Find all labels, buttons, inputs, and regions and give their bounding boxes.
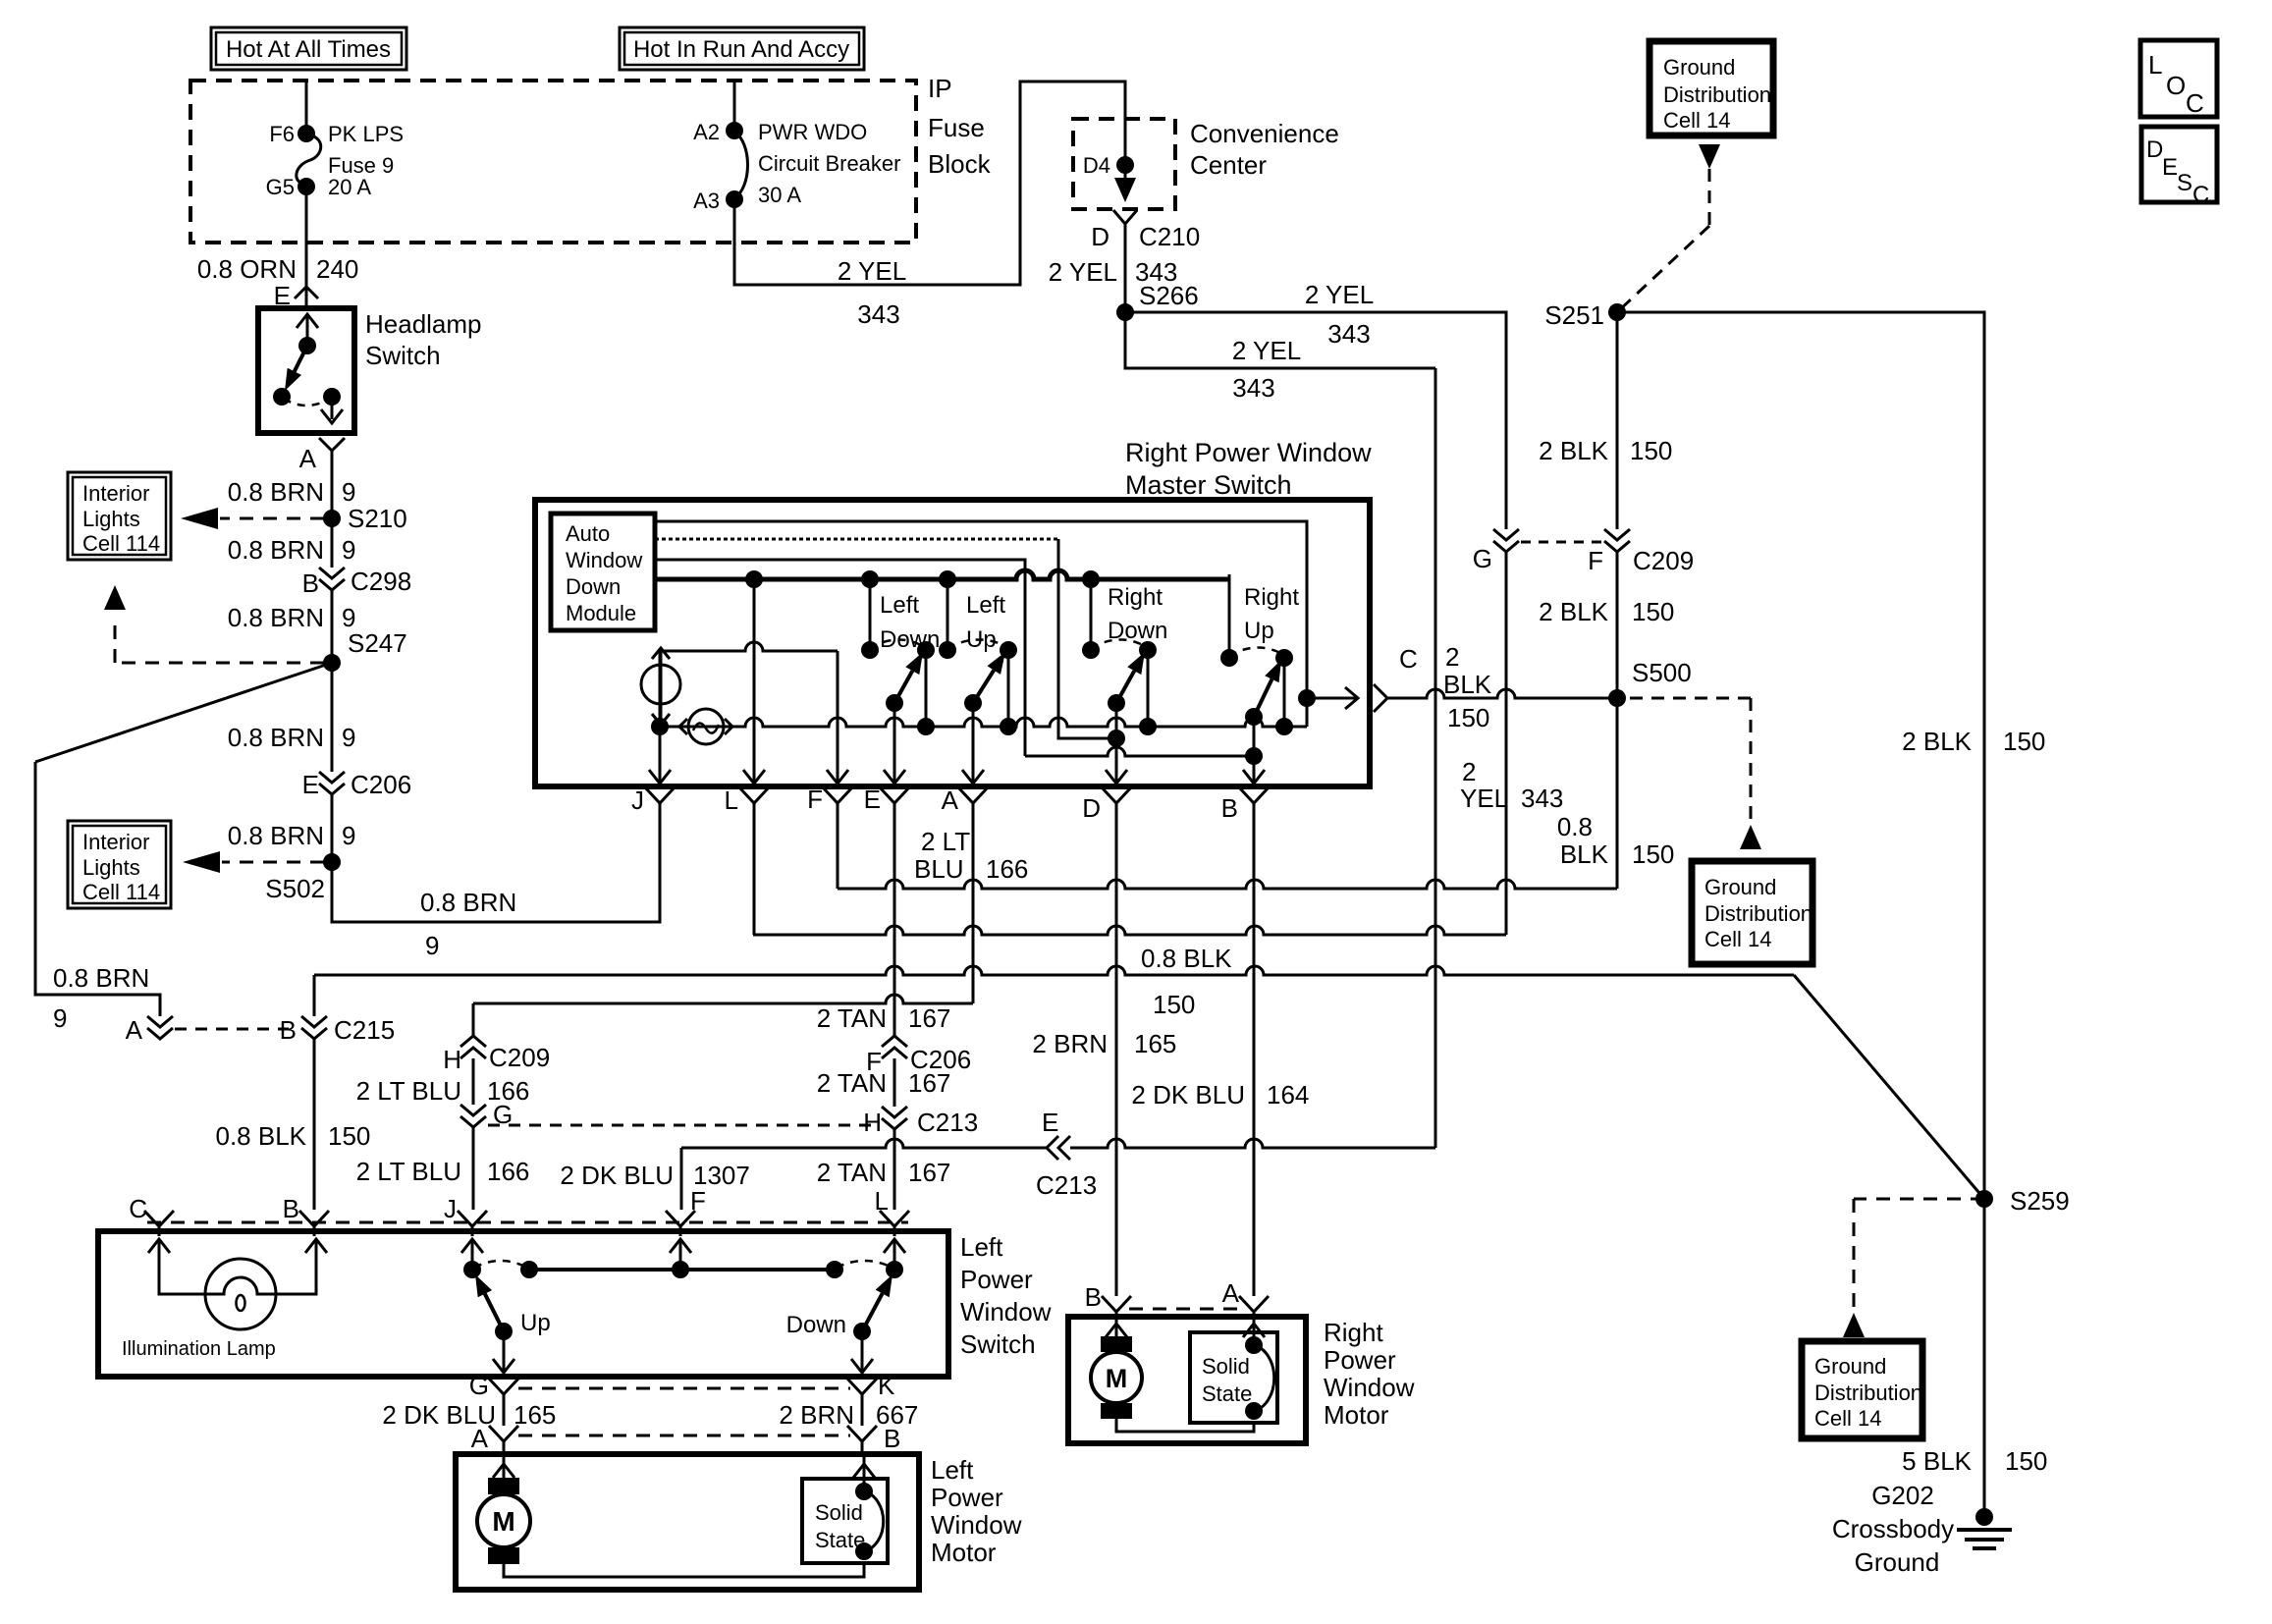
svg-text:5 BLK: 5 BLK [1902,1446,1972,1476]
svg-text:Distribution: Distribution [1814,1380,1922,1405]
DESC legend box [2141,127,2217,208]
splice S266 [1116,281,1199,321]
Auto Window Down Module box [551,514,655,630]
svg-text:343: 343 [1521,784,1563,813]
left switch up contact pair [474,1261,538,1278]
svg-text:150: 150 [1447,703,1489,732]
svg-text:C: C [1399,644,1418,674]
splice D4 in convenience center [1083,153,1134,178]
left motor symbol [477,1478,530,1564]
svg-text:Cell 14: Cell 14 [1814,1406,1881,1431]
svg-text:A: A [1222,1278,1240,1308]
svg-text:9: 9 [342,723,355,752]
svg-text:0.8 BRN: 0.8 BRN [228,477,324,507]
arrow inside convenience center [1114,165,1136,202]
headlamp switch internal contacts and wiper [273,314,343,423]
connector C213 pin H [863,1107,978,1137]
E pin arrow [884,770,905,784]
Left Power Window Motor label [931,1455,1022,1567]
svg-text:167: 167 [908,1003,950,1033]
svg-text:2 DK BLU: 2 DK BLU [1131,1080,1245,1110]
svg-text:Switch: Switch [365,341,441,370]
svg-text:A3: A3 [693,189,720,213]
wire S259 to G202 ground (5 BLK 150) [1902,1199,2047,1517]
right motor connector dashed line [1129,1308,1241,1311]
svg-text:C213: C213 [1036,1170,1097,1200]
breaker label PWR WDO Circuit Breaker 30 A [758,120,900,207]
left down switch [861,579,935,785]
svg-text:Solid: Solid [815,1500,863,1525]
svg-text:E: E [2162,154,2178,181]
left motor pin A [471,1424,518,1453]
Interior Lights Cell 114 box (upper) [68,472,171,560]
Headlamp Switch label [365,309,482,370]
svg-text:Motor: Motor [1324,1400,1389,1430]
left up switch [939,579,1017,785]
master switch pin A [942,785,988,815]
svg-text:C213: C213 [917,1108,978,1137]
svg-text:Ground: Ground [1704,875,1776,899]
svg-text:D: D [1091,222,1109,251]
wire C215 up/right to S259 (0.8 BLK 150) [314,944,1984,1199]
wire master pin L down and right to C209 G wire [753,807,1506,935]
B pin arrow [1243,770,1265,784]
splice S259 [1975,1186,2070,1216]
C output wire and arrow inside master switch [1307,687,1358,709]
svg-text:9: 9 [425,931,439,960]
svg-text:B: B [283,1194,299,1223]
fuse PK LPS Fuse 9 20 A symbol [297,125,321,195]
svg-text:K: K [878,1371,895,1400]
svg-text:BLU: BLU [914,854,964,884]
svg-text:0.8 BRN: 0.8 BRN [420,888,516,917]
left switch pin J [444,1194,487,1236]
svg-text:C215: C215 [334,1015,395,1045]
svg-text:Right: Right [1244,584,1299,611]
svg-text:2 TAN: 2 TAN [817,1068,887,1098]
wire S210 to C298 (0.8 BRN 9) [228,518,356,568]
svg-text:Interior: Interior [82,830,149,854]
svg-text:Distribution: Distribution [1663,82,1771,107]
dashed lead S259 to ground distribution cell 14 (bottom) [1854,1199,1984,1311]
svg-text:343: 343 [1327,319,1370,349]
right motor pin B arrow [1106,1317,1127,1341]
svg-text:2 BLK: 2 BLK [1539,436,1608,465]
svg-text:F: F [807,785,823,814]
svg-text:S259: S259 [2010,1186,2070,1216]
Interior Lights Cell 114 box (lower) [68,821,171,908]
right motor internal wire to solid state [1116,1419,1254,1432]
master switch pin E [864,785,909,814]
svg-text:C209: C209 [1633,546,1694,575]
svg-text:M: M [1106,1364,1128,1393]
svg-text:Cell 114: Cell 114 [82,531,160,556]
svg-text:167: 167 [908,1068,950,1098]
svg-text:A2: A2 [693,120,720,144]
svg-text:Power: Power [1324,1345,1396,1375]
G202 Crossbody Ground label [1832,1481,1954,1577]
svg-text:BLK: BLK [1560,839,1609,869]
svg-text:IP: IP [928,74,952,103]
svg-text:C206: C206 [351,770,411,799]
wire label 2 YEL 343 (below fuse block) [838,256,906,329]
module output wire 2 to right-down wiper [655,539,1116,738]
svg-text:Left: Left [931,1455,974,1485]
wire C209 H to C213 G (2 LT BLU 166) [356,1058,530,1106]
A pin arrow [962,770,984,784]
svg-text:Power: Power [931,1483,1003,1512]
svg-text:PK LPS: PK LPS [328,122,404,146]
svg-text:Auto: Auto [566,521,610,546]
wire from Hot At All Times to fuse F6 [305,81,308,133]
left motor pin A arrow [493,1454,514,1484]
svg-text:165: 165 [1134,1029,1176,1058]
svg-text:2 LT BLU: 2 LT BLU [356,1157,461,1186]
left switch pin C [129,1194,174,1236]
svg-text:Cell 14: Cell 14 [1704,927,1771,951]
svg-text:Down: Down [786,1312,846,1338]
svg-text:G: G [469,1371,489,1400]
svg-text:2 LT: 2 LT [921,827,970,856]
svg-text:Down: Down [880,626,940,653]
wire S500 down then left to master switch pin F (0.8 BLK 150) [838,698,1674,889]
right down switch [1082,579,1157,785]
svg-text:2 DK BLU: 2 DK BLU [560,1161,674,1190]
dashed connector line C215 A to B [175,1028,289,1031]
svg-text:F: F [1588,546,1603,575]
connector A below headlamp switch [299,438,345,473]
wire master pin B down to right motor pin A (2 DK BLU 164) [1131,807,1309,1296]
svg-text:Window: Window [931,1510,1022,1540]
svg-text:Lights: Lights [82,507,140,531]
module output wire 4 feed bus [655,570,1229,658]
wire S247 to C206 (0.8 BRN 9) [228,663,356,772]
svg-text:O: O [2166,71,2186,100]
L pin wire and arrow [743,579,765,785]
svg-text:Block: Block [928,149,992,179]
left switch down contact pair [826,1261,893,1278]
svg-text:165: 165 [514,1400,556,1430]
svg-text:S: S [2177,170,2192,196]
splice S502 [265,853,341,903]
PWR WDO circuit breaker symbol [726,122,748,208]
svg-text:Fuse: Fuse [928,113,985,142]
svg-text:S251: S251 [1544,300,1604,330]
master switch connector row dashed line [589,786,1355,789]
left motor pin B arrow [853,1454,875,1491]
svg-text:M: M [492,1506,514,1537]
svg-text:2 BRN: 2 BRN [779,1400,854,1430]
svg-text:Interior: Interior [82,481,149,506]
svg-text:Distribution: Distribution [1704,901,1812,926]
svg-text:164: 164 [1267,1080,1309,1110]
svg-text:G: G [1473,544,1492,573]
svg-text:A: A [126,1015,143,1045]
svg-text:2 LT BLU: 2 LT BLU [356,1076,461,1106]
left switch pin J arrow to up-switch contact [461,1239,483,1278]
master switch pin F [807,785,852,814]
master switch pin down-arrows [649,727,671,785]
svg-text:S247: S247 [348,628,407,658]
left motor solid state module [802,1479,888,1563]
wire pin K to motor B (2 BRN 667) [779,1400,918,1430]
svg-text:2 YEL: 2 YEL [1232,336,1301,365]
svg-text:A: A [942,785,959,815]
right motor solid state module [1190,1332,1277,1423]
svg-text:E: E [864,785,881,814]
master switch pin B [1221,787,1269,823]
svg-text:2 BLK: 2 BLK [1902,727,1972,756]
dashed lead S502 to interior lights [183,851,324,873]
svg-text:Hot At All Times: Hot At All Times [226,36,391,63]
svg-text:Ground: Ground [1814,1354,1886,1379]
F pin arrow [827,770,848,784]
svg-text:Module: Module [566,601,636,625]
svg-text:BLK: BLK [1443,670,1492,699]
svg-text:C209: C209 [489,1043,550,1072]
fuse label PK LPS Fuse 9 [328,122,404,178]
svg-text:State: State [1202,1381,1252,1406]
left switch pin B arrow and wire to lamp [275,1239,327,1294]
left motor internal wire to solid state [504,1563,864,1577]
wire from Hot In Run And Accy to circuit breaker A2 [733,81,736,130]
svg-text:E: E [1042,1108,1058,1137]
svg-text:150: 150 [2005,1446,2047,1476]
svg-text:0.8 BRN: 0.8 BRN [228,723,324,752]
svg-text:D4: D4 [1083,153,1110,178]
splice S251 [1544,300,1626,330]
svg-text:2 YEL: 2 YEL [1049,257,1117,287]
connector E at headlamp switch [274,281,318,310]
svg-text:150: 150 [1632,839,1674,869]
svg-text:Illumination Lamp: Illumination Lamp [122,1338,276,1360]
svg-text:F: F [690,1186,706,1216]
Left Power Window Motor box [456,1454,919,1590]
power feed label box: Hot At All Times [211,27,406,70]
illumination lamp symbol in master switch [641,648,680,725]
svg-text:G5: G5 [266,175,295,199]
svg-text:Circuit Breaker: Circuit Breaker [758,151,900,176]
svg-text:A: A [299,444,317,473]
wire C213 H down to left switch pin L (2 TAN 167) [817,1129,951,1210]
svg-text:9: 9 [342,535,355,565]
ground symbol G202 [1957,1508,2012,1548]
svg-text:Right: Right [1108,584,1163,611]
master switch pin J [631,785,675,815]
module output wire 3 to right-up wiper [655,560,1254,756]
svg-text:2 TAN: 2 TAN [817,1003,887,1033]
svg-text:Master Switch: Master Switch [1125,470,1292,500]
left switch pin G [469,1371,518,1404]
svg-text:9: 9 [342,477,355,507]
splice S247 [323,628,407,672]
svg-text:D: D [1082,793,1101,823]
svg-text:Ground: Ground [1855,1547,1940,1577]
dashed lead S210 to interior lights [181,508,324,529]
svg-text:150: 150 [2003,727,2045,756]
left switch down wiper [786,1274,893,1340]
wire C206 to S502 (0.8 BRN 9) [228,794,356,862]
svg-text:0.8 BRN: 0.8 BRN [228,603,324,632]
left down label [880,592,940,653]
svg-text:B: B [884,1424,900,1453]
svg-text:240: 240 [316,254,358,284]
svg-text:Convenience: Convenience [1190,119,1339,148]
dashed connector line C213 G to H [488,1124,880,1127]
wire C209 F down to S500 (2 BLK 150) [1539,552,1674,698]
wire master pin A down to connector C209 H (2 LT BLU 166) [473,807,1028,1036]
svg-text:0.8 BLK: 0.8 BLK [1141,944,1232,973]
svg-text:D: D [2146,136,2163,163]
wire C298 to S247 (0.8 BRN 9) [228,590,356,663]
svg-text:0.8 BRN: 0.8 BRN [228,535,324,565]
svg-text:Window: Window [1324,1373,1415,1402]
LOC legend box [2140,40,2217,118]
wire C206 F to C213 H (2 TAN 167) [817,1058,951,1107]
svg-text:Up: Up [966,626,997,653]
svg-text:L: L [725,785,738,815]
svg-text:166: 166 [487,1157,529,1186]
svg-text:Center: Center [1190,150,1267,180]
svg-text:343: 343 [857,299,899,329]
power feed label box: Hot In Run And Accy [620,27,864,70]
Right Power Window Master Switch box [535,500,1370,786]
wire S266 right and down to connector C209 pin G (2 YEL 343) [1125,280,1506,529]
Ground Distribution Cell 14 box (bottom right) [1802,1341,1922,1438]
ground distribution arrow (middle) [1740,825,1761,849]
connector C210 pin D [1091,210,1200,251]
svg-text:Lights: Lights [82,855,140,880]
svg-text:B: B [1221,793,1238,823]
svg-text:0.8 BLK: 0.8 BLK [215,1121,306,1151]
Left Power Window Switch box [98,1231,948,1377]
svg-text:PWR WDO: PWR WDO [758,120,867,144]
Left Power Window Switch label [960,1232,1052,1359]
right up switch [1220,574,1293,785]
connector C215 pin B [280,1015,396,1045]
svg-text:J: J [444,1194,457,1223]
svg-text:Cell 14: Cell 14 [1663,108,1730,133]
Right Power Window Motor box [1068,1317,1306,1443]
svg-text:0.8 BRN: 0.8 BRN [53,963,149,993]
svg-text:Ground: Ground [1663,55,1735,80]
left switch connector dashed line [147,1221,908,1224]
svg-text:343: 343 [1232,373,1274,403]
left switch pin C arrow and wire to lamp [148,1239,206,1294]
svg-text:L: L [2148,50,2162,80]
wire label 0.8 ORN 240 [197,254,359,284]
right motor pin A [1222,1278,1269,1322]
connector C213 pin E [1036,1108,1097,1200]
connector C206 pin F [866,1036,971,1076]
right down label [1108,584,1167,644]
ground distribution arrow (bottom) [1843,1313,1865,1337]
svg-text:Headlamp: Headlamp [365,309,482,339]
wire S266 down/right to power window circuit (2 YEL 343) [1125,312,1435,1148]
Convenience Center label [1190,119,1339,180]
svg-text:Right Power Window: Right Power Window [1125,438,1372,467]
left up label [966,592,1005,653]
wire S502 to master switch pin J (0.8 BRN 9) [332,807,660,960]
wire lamp to J pin [659,651,662,727]
svg-text:S210: S210 [348,504,407,533]
svg-text:B: B [302,568,319,598]
svg-text:0.8 BRN: 0.8 BRN [228,821,324,850]
svg-text:2: 2 [1462,757,1476,786]
IP Fuse Block dashed outline [190,81,916,243]
svg-text:2 YEL: 2 YEL [838,256,906,286]
dashed lead S247 to interior lights [104,585,324,663]
wire C213 E to left switch pin F (2 DK BLU 1307) [560,1139,1435,1210]
module output wire 1 to C terminal [655,521,1307,698]
master switch internal bus [651,689,1316,735]
left switch contact cross wire [529,1261,835,1278]
svg-text:9: 9 [342,821,355,850]
svg-text:Left: Left [966,592,1005,619]
left switch up output arrow to pin G [493,1331,514,1375]
left motor pin B [847,1424,900,1453]
Right Power Window Master Switch title [1125,438,1372,500]
svg-text:Window: Window [960,1297,1052,1326]
left motor connector dashed line [518,1435,850,1437]
wire C210 to splice S266, label 2 YEL 343 [1049,238,1178,312]
svg-text:30 A: 30 A [758,183,801,207]
lamp feed line inside master switch [661,642,838,785]
svg-text:150: 150 [328,1121,370,1151]
left switch pin F [666,1186,706,1236]
Convenience Center dashed outline [1073,119,1175,209]
left switch bottom connector dashed line [518,1387,850,1390]
wire C213 G down to left switch pin J (2 LT BLU 166) [356,1127,530,1210]
svg-text:B: B [280,1015,297,1045]
Right Power Window Motor label [1324,1318,1415,1430]
svg-text:Crossbody: Crossbody [1832,1514,1954,1543]
svg-text:2: 2 [1445,642,1459,672]
IP Fuse Block label [928,74,992,179]
svg-text:9: 9 [53,1003,67,1033]
splice S210 [323,504,407,533]
dashed lead from ground distribution to S251 [1617,169,1709,312]
svg-text:167: 167 [908,1158,950,1187]
svg-text:S502: S502 [265,874,325,903]
svg-text:0.8 ORN: 0.8 ORN [197,254,297,284]
left switch pin F arrow to cross wire [670,1239,691,1270]
connector C215 pin A [126,1015,173,1045]
connector C209 pins G and F [1473,529,1694,575]
svg-text:S500: S500 [1632,658,1692,687]
svg-text:150: 150 [1630,436,1672,465]
wire C215 B down to left switch pin B (0.8 BLK 150) [215,1039,370,1210]
svg-text:Cell 114: Cell 114 [82,880,160,904]
D pin arrow [1106,770,1127,784]
Ground Distribution Cell 14 box (top right) [1650,41,1773,135]
svg-text:H: H [443,1045,461,1074]
svg-text:B: B [1085,1282,1102,1312]
svg-text:Switch: Switch [960,1329,1036,1359]
svg-text:C: C [2186,88,2204,118]
svg-text:F6: F6 [269,122,295,146]
right motor pin B [1085,1282,1131,1322]
connector C213 pin G [460,1100,513,1129]
wire headlamp A to S210 (0.8 BRN 9) [228,458,356,518]
dashed lead S500 to ground distribution cell 14 (middle) [1630,698,1751,823]
svg-text:L: L [875,1186,889,1216]
connector C at master switch right edge [1374,644,1418,712]
svg-text:20 A: 20 A [328,175,371,199]
left switch pin K [847,1371,895,1404]
svg-text:C: C [2192,182,2209,208]
left switch pin B [283,1194,329,1236]
